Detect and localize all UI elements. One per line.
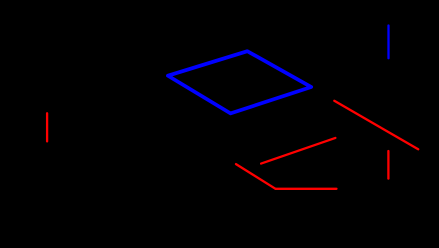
blue cross-section parallelogram (vertices L,T,R,B) bbox=[168, 51, 311, 113]
red diagonal edge (lower left) bbox=[236, 164, 276, 189]
red vertical edge segment (right) bbox=[387, 151, 389, 179]
red diagonal edge (middle) bbox=[261, 138, 335, 164]
blue vertical edge segment (top right) bbox=[387, 26, 389, 59]
red horizontal edge (bottom) bbox=[276, 188, 337, 190]
red diagonal edge (upper right) bbox=[334, 101, 418, 149]
red vertical edge segment (left) bbox=[46, 113, 48, 141]
